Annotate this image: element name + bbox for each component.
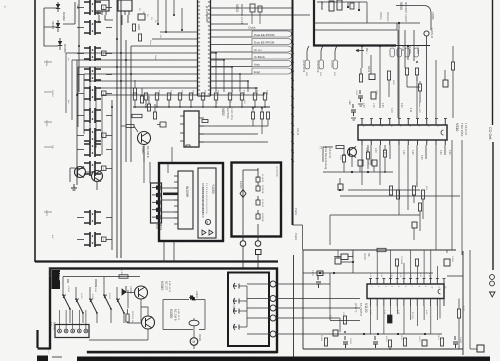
resistor R1118 — [388, 340, 391, 347]
FL58 enclosure box — [50, 269, 277, 353]
white gap under connector — [49, 350, 87, 356]
wire+flag Duty EE-PROM — [211, 44, 253, 46]
resistor row R205 — [189, 93, 192, 100]
capacitor pair group 3 — [84, 46, 90, 61]
connector box X2 (cut at top) — [118, 0, 132, 11]
connector P/N9003 box — [151, 183, 162, 223]
wire drops to resistor row — [211, 53, 265, 95]
capacitors C1151-C1154 — [233, 283, 239, 289]
capacitor C851 — [160, 122, 166, 127]
capacitor C1119 — [422, 340, 427, 346]
pin number box 3 — [102, 51, 107, 56]
wire v800 drops — [398, 30, 414, 118]
connector P/N9003 pins — [156, 186, 161, 190]
wire connector right 1 — [211, 7, 293, 9]
resistor R150 — [132, 24, 135, 31]
wire right top horiz — [396, 6, 431, 31]
capacitor C311 — [358, 160, 363, 166]
resistor R306 — [369, 74, 375, 80]
resistor R1121 — [324, 338, 327, 346]
wire V310 pin drops — [362, 145, 445, 195]
resistor R808 — [415, 68, 418, 75]
capacitor C1112 — [444, 259, 450, 266]
resistor row R207 — [214, 93, 217, 100]
capacitor C306 — [443, 80, 448, 87]
resistor R163 — [133, 88, 136, 95]
wire V860 base — [121, 125, 126, 127]
resistor row R209 — [240, 93, 243, 100]
diode E1940 — [189, 295, 196, 300]
junction dots upper — [379, 45, 381, 47]
page left border — [34, 0, 36, 262]
resistor R307 — [387, 71, 390, 80]
bottom left black tag — [37, 356, 48, 361]
capacitor C312 — [372, 160, 377, 166]
page right border lower — [492, 142, 494, 270]
wire bottom gather — [326, 333, 442, 335]
port square EH — [256, 250, 262, 255]
capacitor pair group 6 — [84, 108, 90, 123]
wire top cluster — [317, 2, 367, 12]
wire vertical bus C — [111, 100, 113, 250]
resistor R319 — [421, 190, 424, 199]
bus hatch ticks — [291, 42, 294, 162]
capacitor C304 — [371, 92, 376, 99]
junction dots top cluster — [347, 6, 349, 8]
resistor R809 — [418, 84, 421, 91]
FL58 name tag — [52, 270, 61, 289]
diode E1060 diamond — [240, 190, 246, 198]
page right border upper — [492, 0, 494, 125]
wire port out 4 — [276, 317, 340, 319]
small box B1 — [138, 14, 145, 20]
fl58 bottom-left corner piece — [38, 330, 51, 349]
resistor R861 — [126, 125, 134, 128]
resistor R317 — [383, 150, 386, 157]
capacitor C1107 — [316, 276, 321, 288]
wire bundle to left circuits — [66, 32, 198, 95]
resistor R1110 — [343, 316, 346, 324]
wire port out 5 — [276, 333, 326, 335]
resistor R314 — [336, 146, 344, 149]
wire FL58 bottom rail — [89, 339, 148, 341]
wire stub group 4 — [77, 74, 112, 76]
capacitor pair group 4 — [84, 67, 90, 82]
hanging tag group right — [390, 48, 394, 57]
wire vertical bus E — [120, 0, 122, 258]
resistor R315 — [342, 155, 345, 162]
wire V1100 block top — [303, 249, 456, 251]
capacitor pair group 1 — [84, 0, 90, 15]
resistor R1119 — [440, 338, 443, 346]
capacitor C801 — [350, 3, 354, 9]
fl58 bottom outer line — [87, 352, 277, 354]
V310 pin ticks — [362, 119, 445, 146]
wire right column v310 — [399, 140, 462, 255]
diode D2281 — [56, 23, 60, 28]
section bar bottom — [77, 357, 490, 361]
connector P/N 9007 pins — [58, 329, 62, 333]
resistor row R208 — [228, 93, 231, 100]
wire stub group 3 — [77, 53, 112, 55]
junction dots under V310 — [339, 189, 341, 191]
wire bracket around diodes D2292/D2281/D2358 — [44, 2, 60, 50]
fuse F1901 B — [424, 31, 429, 36]
W1099 pin ticks — [174, 176, 178, 224]
wire to +label — [63, 2, 75, 24]
W1099 driver box — [178, 171, 193, 229]
display module outer box — [159, 163, 223, 241]
Y1050 display box — [198, 168, 216, 238]
EH082 outer box — [232, 163, 282, 237]
flag tag E-EEPROM — [305, 60, 310, 69]
pin number box 5 — [102, 91, 107, 96]
display symbol circle — [205, 219, 210, 224]
capacitor pair group 9 — [84, 161, 90, 176]
resistor RL4 — [256, 214, 260, 219]
top small parts — [250, 4, 255, 12]
resistor R1107 — [388, 315, 393, 323]
wire mid stubs — [135, 80, 155, 112]
bus bar black — [163, 193, 178, 196]
transistor V302 — [348, 148, 357, 157]
resistor RL2 — [256, 186, 260, 191]
wire stub group 8 — [77, 149, 112, 151]
wire Clock — [211, 29, 293, 31]
resistor row R211 — [263, 93, 266, 100]
wire v1100 bottom verticals — [371, 299, 441, 335]
transistor V856 — [92, 171, 103, 182]
resistor R1331 — [126, 314, 129, 322]
wire right v1100 col — [447, 250, 470, 349]
op-amp V310 IC body — [358, 125, 447, 140]
wire connector right 2 — [211, 14, 311, 16]
wire bus under resistor row — [133, 106, 270, 108]
pin number box 1 — [102, 5, 107, 10]
thick bus vertical left — [292, 0, 294, 225]
wire EH top — [243, 169, 258, 171]
resistor R321 — [389, 186, 392, 195]
connector port circles — [270, 281, 276, 287]
resistor row R201 — [144, 93, 147, 100]
uComputer connector bottom cap — [198, 95, 211, 97]
V1100 pin top bars — [369, 278, 445, 280]
op-amp V1100 IC body — [367, 284, 444, 299]
wire bottom stub — [52, 356, 62, 358]
wire port out 2 — [276, 298, 360, 300]
resistor row R206 — [201, 93, 204, 100]
registration circles — [490, 275, 495, 280]
thick bus L horizontal — [313, 44, 396, 46]
wire from X1 down — [99, 15, 113, 23]
wire h segment 2 — [340, 195, 460, 197]
resistor R853 — [251, 112, 254, 119]
wire+flag Auto — [211, 66, 253, 68]
port circle EH2 — [257, 237, 259, 241]
resistor R854 — [260, 112, 263, 119]
resistor R316 — [366, 152, 369, 159]
wire V1100 block inner top — [303, 272, 433, 274]
registration triangle — [490, 292, 496, 297]
wire vertical bus A — [76, 60, 78, 185]
uComputer connector left rail — [197, 0, 199, 96]
wire FL58 top rail — [63, 276, 140, 278]
wire top right lines — [313, 12, 420, 30]
wire+flag Data EE-PROM — [211, 36, 253, 38]
display triangles — [202, 230, 213, 235]
wire display-to-FL58 links — [164, 241, 174, 262]
wire into display box — [144, 147, 172, 183]
resistor R807 — [405, 68, 408, 75]
ground symbol left column — [71, 184, 77, 190]
wire stub group 5 — [77, 93, 112, 95]
wire caps to ports — [247, 284, 270, 334]
capacitor C1116 — [373, 336, 378, 348]
wire below flags — [211, 80, 249, 82]
wire switch commons — [63, 279, 124, 323]
capacitor C1106 — [335, 258, 341, 264]
resistor R322 — [396, 190, 399, 199]
wire cluster under V310 — [323, 145, 393, 172]
pin number box 9 — [102, 166, 107, 171]
wire phas lines — [293, 215, 421, 250]
wire mid horizontals v1100 — [330, 284, 360, 332]
wire stub group 11 — [77, 239, 112, 241]
wire transistor pair — [70, 168, 97, 190]
wire stub group 1 — [77, 7, 112, 9]
diode D2358 — [58, 41, 62, 46]
capacitor C314 — [412, 222, 417, 228]
wire c1101 — [334, 250, 353, 273]
capacitor C313 — [338, 184, 343, 190]
wire V1100 block left — [302, 250, 304, 349]
wire connector right 3 — [211, 23, 249, 25]
wire connector to W1099 — [162, 188, 179, 218]
wire stub group 2 — [77, 27, 112, 29]
capacitor pair group 2 — [84, 20, 90, 35]
resistor R311 — [451, 62, 454, 70]
resistor row R200 — [133, 93, 136, 100]
wire vertical bus D — [116, 0, 118, 258]
transistor V855 — [75, 167, 86, 178]
wire V850 out right — [199, 125, 268, 127]
resistor R1340 — [119, 275, 128, 278]
resistor R851 — [202, 120, 208, 123]
wire+flag Engl — [211, 73, 253, 75]
resistor R318 — [412, 186, 415, 195]
connector P/N 9007 box — [55, 325, 89, 338]
junction dots bottom — [377, 333, 379, 335]
wire inner box vertical — [246, 286, 248, 327]
uComputer connector right rail — [210, 0, 212, 96]
resistor R1105b — [457, 309, 460, 318]
resistor RL3 — [256, 200, 260, 205]
capacitor C1110 — [333, 330, 338, 336]
wire verticals above bundle — [158, 0, 182, 32]
resistor row R202 — [155, 93, 158, 100]
capacitor pair group 11 — [84, 232, 90, 247]
junction dots bundle area — [116, 38, 118, 40]
wire EH082 inner rails — [243, 168, 258, 235]
wire motor loop — [163, 300, 205, 330]
capacitor pair group 7 — [84, 128, 90, 143]
wire+flag IC-Block — [211, 58, 253, 60]
transistor V1340 — [135, 286, 148, 299]
resistor R151 — [138, 34, 141, 41]
resistor R303 — [359, 74, 362, 82]
resistor R1105 — [395, 259, 398, 266]
wire r809 — [407, 75, 420, 103]
wire vertical bus F — [125, 40, 127, 162]
resistor RL1 — [256, 177, 260, 182]
port circle EH1 — [242, 237, 244, 241]
transistor V1330 — [142, 316, 155, 329]
op-amp V850 IC body — [184, 111, 199, 147]
resistor R802 — [337, 0, 342, 10]
resistor R1104 — [377, 248, 386, 251]
capacitor C1117 — [343, 336, 348, 348]
wire stub group 10 — [77, 217, 112, 219]
wire vertical bus B — [78, 0, 80, 92]
resistor row R210 — [253, 93, 256, 100]
wire bus right thin — [396, 45, 430, 47]
junction dots v1100 top — [319, 272, 321, 274]
wire V1100 block bottom — [303, 348, 463, 350]
capacitor C1101 — [341, 254, 348, 260]
wire+flag IC +U — [211, 51, 253, 53]
wire stub group 6 — [77, 115, 112, 117]
wire below flags 2 — [211, 87, 259, 89]
wire bus drops mid — [307, 46, 337, 60]
arrow uP reset — [356, 49, 364, 51]
wire long vertical x293 — [293, 255, 295, 361]
pin number box 11 — [102, 237, 107, 242]
V310 pin bars — [361, 118, 448, 120]
resistor R855 — [266, 112, 269, 119]
flag tag D-EEPROM — [319, 60, 324, 69]
wire stubs left margin — [44, 62, 52, 212]
upper frame bottom border — [35, 260, 278, 262]
wire stub group 7 — [77, 135, 112, 137]
wire motor down — [193, 326, 195, 338]
small box bottom right — [477, 345, 484, 352]
wire ports down — [242, 246, 244, 268]
wire stub group 9 — [77, 168, 112, 170]
resistor R166 — [153, 112, 156, 119]
capacitor C303 — [358, 90, 363, 102]
thick bus L vertical — [313, 0, 315, 46]
ground C302 — [351, 118, 356, 120]
capacitor pair group 5 — [84, 86, 90, 101]
resistor R164 — [140, 96, 143, 103]
diode CD300 — [122, 286, 126, 295]
junction dots connector right — [215, 52, 217, 54]
diode D2292 — [56, 4, 60, 9]
wire h segment 1 — [348, 189, 420, 191]
uComputer connector pin ticks — [198, 2, 211, 94]
inner shield box — [228, 273, 269, 347]
resistor row R203 — [167, 93, 170, 100]
wire vertical bus G — [130, 46, 132, 162]
resistor R862 — [132, 114, 142, 117]
V1100 pin ticks — [371, 279, 444, 307]
capacitor C1115 — [453, 336, 458, 348]
wire FL58 verticals — [63, 277, 128, 309]
resistor row R204 — [178, 93, 181, 100]
resistor R165 — [147, 104, 150, 111]
capacitor C302 electrolytic — [351, 104, 356, 116]
switch bank S1-S5 — [63, 295, 70, 310]
pin number box 7 — [102, 133, 107, 138]
wire transistor FL58 — [127, 293, 149, 341]
flag tag C-EEPROM — [333, 60, 338, 69]
small box L1101 — [317, 271, 323, 276]
transistor V860 — [138, 132, 151, 145]
wire from X2 down — [122, 15, 128, 25]
ground C303 — [358, 104, 363, 106]
resistor R1106 — [415, 259, 418, 266]
wire port out 1 — [276, 283, 330, 285]
motor M1934 — [190, 338, 198, 346]
wire fuse down — [426, 36, 428, 118]
connector box X1 (cut at top) — [95, 0, 109, 11]
V850 pin stubs — [180, 116, 204, 142]
resistor R320 — [418, 203, 421, 211]
wire port out 3 — [276, 307, 356, 309]
wire right resistor stubs — [253, 107, 268, 134]
wire V1100 block right — [462, 251, 464, 355]
capacitor pair group 10 — [84, 210, 90, 225]
capacitor pair group 8 — [84, 142, 90, 157]
wire v310 upper verticals — [362, 23, 436, 118]
resistor R1122 — [403, 338, 406, 346]
wire v1100 upper verticals — [377, 250, 447, 279]
wire bundle left vertical drops — [66, 53, 102, 155]
relay coil K1933 — [189, 320, 199, 326]
resistor R801 — [329, 1, 334, 11]
